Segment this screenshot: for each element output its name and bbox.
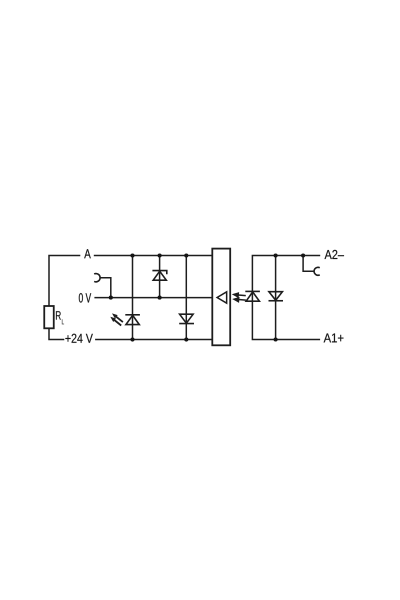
wire A line from label to coupler box — [94, 255, 213, 257]
connector socket right (A2 plug contact) — [314, 267, 320, 275]
LED D1 indicator (triangle up, bar on top) — [125, 315, 140, 325]
wire input diode vertical — [275, 256, 277, 340]
wire branch LED vertical — [132, 256, 134, 340]
junction dot +24V LED branch — [130, 338, 134, 342]
wire top-left A rail to left vertical — [49, 256, 80, 307]
label A2- — [325, 250, 344, 259]
junction dot 0V zener — [158, 296, 162, 300]
wire A2 connector stub — [303, 256, 314, 272]
junction dot input top diode branch — [274, 253, 278, 257]
zener diode Z1 (triangle up, bar with right tick) — [152, 271, 166, 281]
junction dot input bottom diode branch — [274, 337, 278, 341]
junction dot A/diode branch — [184, 253, 188, 257]
optocoupler light arrows pointing left — [234, 293, 246, 301]
wire input loop left vertical with top and bottom rails — [252, 256, 320, 340]
junction dot 0V connector — [109, 296, 113, 300]
label A — [84, 249, 91, 258]
connector socket left (0V plug contact) — [94, 274, 100, 282]
wire branch zener vertical — [159, 256, 161, 298]
diode D2 freewheel (triangle down, bar below) — [179, 314, 194, 323]
wire +24V line from label to coupler box — [95, 339, 212, 341]
LED D1 emission arrows pointing north-west — [110, 313, 123, 325]
label A1+ — [324, 333, 344, 342]
label RL — [56, 311, 64, 324]
wire branch diode vertical — [185, 256, 187, 340]
input reverse diode D5 (triangle down, bar below) — [269, 292, 284, 301]
junction dot A2 stub — [301, 253, 305, 257]
junction dot A/LED branch — [130, 253, 134, 257]
label +24V — [65, 334, 92, 343]
wire left rail lower corner to +24V label — [49, 328, 64, 339]
label 0V — [79, 293, 91, 302]
input LED D4 (triangle up, bar on top) — [245, 291, 260, 301]
wire 0V line from label to coupler box — [94, 297, 212, 299]
wire connector stub to 0V junction — [100, 278, 111, 298]
optocoupler receiver triangle — [217, 292, 227, 303]
junction dot +24V diode branch — [184, 338, 188, 342]
optocoupler output stage box U1 — [212, 249, 230, 346]
resistor RL body — [44, 306, 54, 328]
junction dot A/zener branch — [158, 253, 162, 257]
